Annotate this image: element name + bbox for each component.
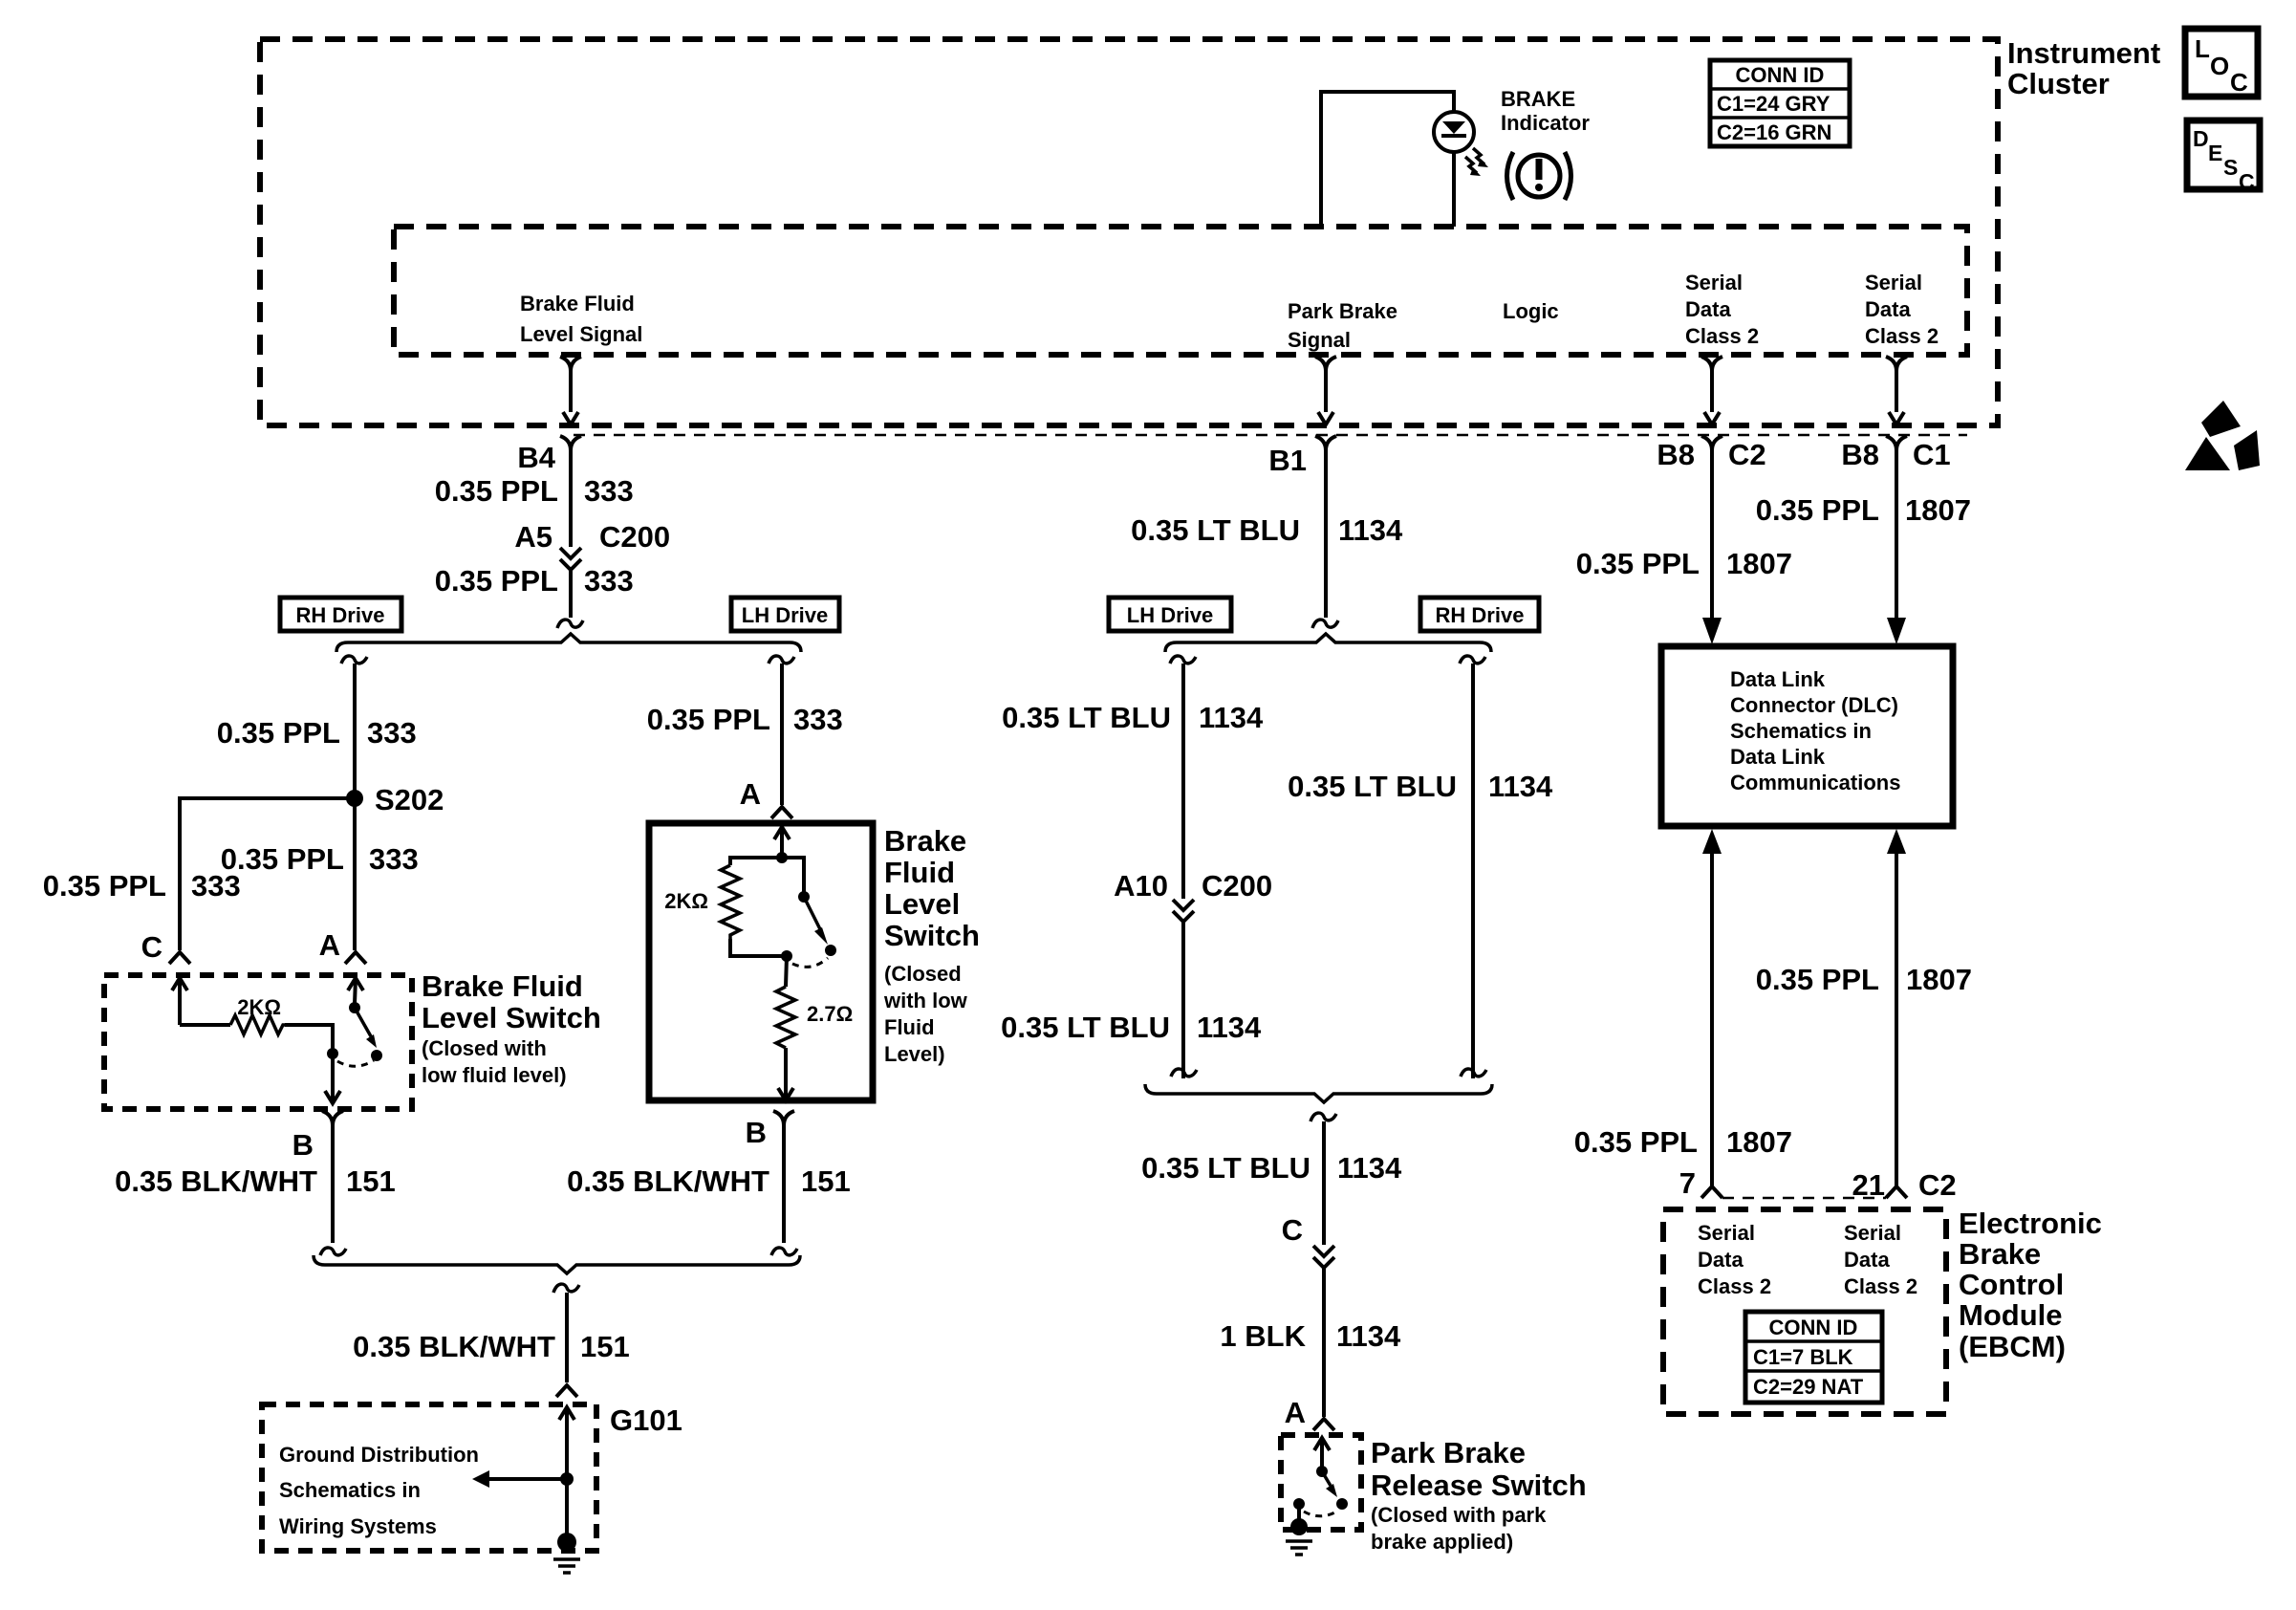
svg-text:0.35 LT BLU: 0.35 LT BLU [1002,701,1171,734]
svg-text:C2: C2 [1728,438,1766,471]
svg-text:Fluid: Fluid [884,856,955,889]
svg-text:Schematics in: Schematics in [279,1478,421,1502]
svg-text:1134: 1134 [1337,1151,1402,1185]
svg-text:BRAKE: BRAKE [1501,87,1575,111]
svg-text:1807: 1807 [1905,493,1971,527]
wire RH branch down [1471,664,1475,1078]
thin dashed connector line (EBCM) [1722,1197,1886,1200]
connector C200 pin A10 chevrons [1173,900,1194,910]
wire strain squiggle above left brace [557,620,583,628]
svg-text:Serial: Serial [1698,1221,1755,1245]
svg-text:C: C [141,930,162,964]
park brake release switch dashed box [1281,1435,1361,1530]
svg-text:Module: Module [1959,1298,2063,1332]
svg-text:333: 333 [584,474,634,508]
svg-text:Control: Control [1959,1268,2064,1301]
wire lower contact down with exit arrow [331,1054,335,1101]
svg-text:C: C [2230,68,2248,97]
wire B1 park brake signal down to splice brace [1324,450,1328,618]
svg-text:Brake Fluid: Brake Fluid [520,292,635,315]
merge brace joining park brake branches [1145,1084,1492,1102]
svg-text:2KΩ: 2KΩ [664,889,708,913]
wire LH branch below C200 [1181,922,1185,1078]
svg-text:C2=16 GRN: C2=16 GRN [1717,120,1831,144]
svg-text:A: A [740,777,761,811]
svg-text:0.35 PPL: 0.35 PPL [221,842,344,876]
svg-text:L: L [2195,34,2210,63]
svg-text:0.35 BLK/WHT: 0.35 BLK/WHT [115,1164,317,1198]
wire B4 to C200 [569,450,573,547]
svg-text:Data Link: Data Link [1730,745,1826,769]
RH Drive version box (middle column) [1420,598,1539,631]
wire B down to merge brace [331,1125,335,1243]
wire LH drive branch down to switch [780,664,784,805]
wire lower contact to 2.7 ohm resistor [786,956,787,987]
splice S202 [346,790,363,807]
svg-text:B8: B8 [1657,438,1695,471]
svg-text:1807: 1807 [1726,1125,1792,1159]
instrument cluster inner logic dashed box [394,227,1967,355]
svg-text:1134: 1134 [1199,701,1264,734]
svg-text:1134: 1134 [1336,1319,1401,1353]
wire serial data C1 down to DLC [1895,450,1898,620]
svg-text:S: S [2223,155,2238,180]
svg-text:0.35 PPL: 0.35 PPL [1756,493,1879,527]
svg-text:A: A [1285,1396,1306,1429]
svg-text:1134: 1134 [1338,513,1403,547]
svg-text:C: C [1282,1213,1303,1247]
CONN ID table (EBCM) [1745,1312,1882,1403]
svg-text:1 BLK: 1 BLK [1220,1319,1306,1353]
terminal chevron A (right switch) [771,807,792,818]
merge brace joining RH/LH drive grounds [314,1255,800,1273]
svg-text:Class 2: Class 2 [1685,324,1759,348]
wire RH drive branch down to S202 [353,664,357,950]
svg-text:A5: A5 [514,520,552,554]
electronic brake control module EBCM dashed box [1663,1209,1946,1414]
svg-text:0.35 PPL: 0.35 PPL [1576,547,1700,580]
svg-text:C1: C1 [1913,438,1951,471]
arrow into switch from A [774,827,790,839]
svg-text:C200: C200 [1202,869,1272,903]
arrow into A terminal (left switch) [348,978,363,990]
terminal chevron at G101 [556,1385,577,1397]
RH Drive version box (left) [280,598,401,631]
svg-text:C1=24 GRY: C1=24 GRY [1717,92,1830,116]
wire ground contact down [1297,1504,1301,1524]
switch upper contact [349,1002,360,1013]
svg-text:0.35 LT BLU: 0.35 LT BLU [1131,513,1300,547]
svg-text:Serial: Serial [1844,1221,1901,1245]
wire hook top of RH drive branch [341,656,367,664]
wire merged park brake signal down [1322,1121,1326,1245]
wire to 2K resistor (vertical) [730,858,782,865]
svg-text:2.7Ω: 2.7Ω [807,1002,853,1026]
svg-text:0.35 PPL: 0.35 PPL [435,564,558,598]
junction dot [776,852,788,863]
svg-text:1134: 1134 [1488,770,1553,803]
svg-text:Data: Data [1865,297,1911,321]
terminal chevron C [169,952,190,964]
svg-text:Brake: Brake [884,824,966,858]
svg-text:S202: S202 [375,783,444,816]
svg-text:Connector (DLC): Connector (DLC) [1730,693,1898,717]
svg-text:CONN ID: CONN ID [1769,1316,1858,1339]
svg-text:B: B [746,1116,767,1149]
svg-text:C200: C200 [599,520,670,554]
svg-text:CONN ID: CONN ID [1736,63,1825,87]
svg-text:B4: B4 [517,441,555,474]
wire hook top of LH park brake branch [1170,656,1196,664]
arrow into C terminal [172,978,187,990]
connector C200 pin A5 chevrons [560,548,581,558]
svg-text:(Closed with park: (Closed with park [1371,1503,1547,1527]
wire resistor to lower contact [285,1025,333,1050]
svg-text:Park Brake: Park Brake [1288,299,1397,323]
wire down to park brake release switch [1322,1268,1326,1417]
wire C200 to splice brace [569,570,573,618]
LH Drive version box (left column) [731,598,839,631]
svg-text:Data Link: Data Link [1730,667,1826,691]
svg-text:0.35 PPL: 0.35 PPL [1756,963,1879,996]
svg-text:Serial: Serial [1685,271,1743,294]
svg-text:low fluid level): low fluid level) [422,1063,567,1087]
svg-text:0.35 LT BLU: 0.35 LT BLU [1141,1151,1310,1185]
svg-text:C: C [2239,169,2255,194]
svg-text:LH Drive: LH Drive [742,603,828,627]
svg-text:C2=29 NAT: C2=29 NAT [1753,1375,1864,1399]
switch arm with arrowhead [804,897,820,929]
svg-text:0.35 PPL: 0.35 PPL [647,703,770,736]
svg-text:Electronic: Electronic [1959,1207,2102,1240]
DESC reference box [2187,120,2260,189]
inline connector chevrons (C) [1313,1246,1334,1256]
svg-text:7: 7 [1679,1166,1696,1200]
svg-text:B1: B1 [1268,444,1307,477]
switch arm with arrowhead [1322,1471,1331,1486]
junction dot in G101 [560,1472,574,1486]
resistor 2K ohm (vertical) [721,865,740,939]
LED light emission arrows [1473,148,1484,164]
switch arm with arrowhead [355,1008,371,1036]
svg-text:2KΩ: 2KΩ [237,995,281,1019]
ground symbol (park brake switch) [1290,1518,1308,1535]
svg-text:Cluster: Cluster [2007,67,2110,100]
svg-text:Instrument: Instrument [2007,36,2160,70]
svg-text:Switch: Switch [884,919,980,952]
wire: serial data class 2 output arrow (C1) [1886,357,1896,371]
ground G101 dashed box [262,1404,596,1551]
svg-text:B8: B8 [1841,438,1879,471]
wire strain squiggle above middle brace [1312,620,1338,628]
svg-text:Release Switch: Release Switch [1371,1469,1587,1502]
svg-text:151: 151 [801,1164,851,1198]
svg-text:E: E [2208,141,2222,165]
svg-text:brake applied): brake applied) [1371,1530,1513,1554]
arrow into G101 [559,1407,574,1420]
svg-text:0.35 LT BLU: 0.35 LT BLU [1288,770,1457,803]
wire hook bottom of RH branch [1461,1069,1486,1077]
svg-text:Level Signal: Level Signal [520,322,642,346]
wire to switch upper contact [782,858,804,893]
wire hook bottom of LH branch [771,1248,797,1255]
svg-text:Class 2: Class 2 [1844,1274,1917,1298]
svg-text:1807: 1807 [1726,547,1792,580]
svg-text:Communications: Communications [1730,771,1900,794]
svg-text:151: 151 [580,1330,630,1363]
wire merged ground down to G101 [565,1293,569,1382]
svg-text:G101: G101 [610,1403,682,1437]
svg-text:0.35 PPL: 0.35 PPL [1574,1125,1698,1159]
connector fork below left switch (terminal B) [322,1111,333,1125]
svg-text:1134: 1134 [1197,1011,1262,1044]
wire: serial data class 2 output arrow (C2) [1701,357,1712,371]
arrow into park brake switch [1314,1438,1330,1450]
svg-text:Indicator: Indicator [1501,111,1590,135]
svg-text:0.35 PPL: 0.35 PPL [217,716,340,750]
svg-text:0.35 BLK/WHT: 0.35 BLK/WHT [353,1330,555,1363]
wire resistor bottom to lower contact [730,939,784,956]
svg-text:Brake: Brake [1959,1237,2041,1271]
reference arrow to ground distribution [472,1470,489,1488]
svg-text:Level Switch: Level Switch [422,1001,601,1034]
svg-text:Serial: Serial [1865,271,1922,294]
svg-text:0.35 BLK/WHT: 0.35 BLK/WHT [567,1164,769,1198]
svg-text:Brake Fluid: Brake Fluid [422,969,583,1003]
ESD susceptibility symbol [2201,401,2241,437]
CONN ID table (instrument cluster) [1710,60,1850,146]
svg-text:C1=7 BLK: C1=7 BLK [1753,1345,1853,1369]
switch upper contact [798,891,810,903]
svg-text:(EBCM): (EBCM) [1959,1330,2066,1363]
svg-text:A: A [319,928,340,962]
svg-text:A10: A10 [1114,869,1168,903]
connector fork pin B8 C1 [1886,436,1896,450]
svg-text:Data: Data [1698,1248,1744,1272]
terminal chevron pin 7 [1701,1186,1722,1198]
svg-text:Data: Data [1844,1248,1890,1272]
wire hook top of LH drive branch [769,656,794,664]
wire: brake indicator lamp loop [1321,92,1454,227]
LED D1 brake indicator lamp [1434,112,1474,152]
svg-text:O: O [2210,52,2229,80]
connector fork pin B1 [1315,436,1326,450]
svg-text:with low: with low [883,989,968,1012]
wire to 2K resistor [180,1023,230,1027]
svg-text:333: 333 [369,842,419,876]
wire strain squiggle below merge brace [553,1284,579,1293]
terminal chevron A (park brake switch) [1313,1419,1334,1430]
wire hook bottom of RH branch [320,1248,346,1255]
svg-text:Class 2: Class 2 [1865,324,1939,348]
connector fork pin B8 C2 [1701,436,1712,450]
svg-text:C2: C2 [1918,1168,1957,1202]
switch lower contact [781,950,792,962]
resistor 2.7 ohm (vertical) [776,987,795,1048]
svg-text:RH Drive: RH Drive [1436,603,1525,627]
connector fork pin B4 [560,436,571,450]
switch upper contact [1316,1466,1328,1477]
svg-text:Signal: Signal [1288,328,1351,352]
svg-text:Wiring Systems: Wiring Systems [279,1514,437,1538]
svg-text:LH Drive: LH Drive [1127,603,1213,627]
LOC reference box [2185,29,2258,97]
svg-text:Level): Level) [884,1042,945,1066]
svg-text:333: 333 [584,564,634,598]
switch travel contact [825,945,836,956]
svg-text:D: D [2193,126,2209,151]
wire EBCM pin 21 up to DLC [1887,829,1906,854]
svg-text:333: 333 [793,703,843,736]
brake warning symbol (!) [1518,155,1560,197]
wire: brake fluid level signal output arrow [560,357,571,371]
svg-text:(Closed: (Closed [884,962,962,986]
data link connector DLC box [1661,646,1953,826]
wire hook bottom of LH branch [1171,1069,1197,1077]
switch ground contact [1293,1498,1305,1510]
svg-text:Data: Data [1685,297,1731,321]
wire S202 loop to C terminal [180,798,355,950]
switch travel dashed arc [792,958,828,967]
ground symbol G101 [557,1533,576,1552]
svg-text:Schematics in: Schematics in [1730,719,1872,743]
wire: LED cathode to logic box [1452,151,1456,227]
resistor 2K ohm (horizontal) [230,1015,285,1034]
svg-text:1807: 1807 [1906,963,1972,996]
thin dashed connector line (instrument cluster connectors) [574,434,1967,437]
wire strain squiggle below middle merge brace [1310,1113,1336,1121]
switch travel contact [371,1050,382,1061]
brake fluid level switch (RH drive) dashed box [104,975,412,1109]
svg-text:(Closed with: (Closed with [422,1036,547,1060]
wire LH branch down to C200 [1181,664,1185,899]
LH Drive version box (middle column) [1109,598,1231,631]
terminal chevron pin 21 [1886,1186,1907,1198]
terminal chevron A (left switch) [345,952,366,964]
splice brace splitting RH/LH drive (left column) [336,634,801,652]
svg-text:151: 151 [346,1164,396,1198]
svg-text:Level: Level [884,887,960,921]
wire hook top of RH park brake branch [1460,656,1485,664]
svg-text:Fluid: Fluid [884,1015,935,1039]
splice brace splitting LH/RH drive (middle column) [1165,634,1491,652]
wire resistor down with exit arrow [784,1048,788,1099]
svg-text:Class 2: Class 2 [1698,1274,1771,1298]
wire: park brake signal output arrow [1315,357,1326,371]
svg-text:B: B [292,1128,314,1162]
switch travel contact [1336,1498,1348,1510]
svg-text:0.35 LT BLU: 0.35 LT BLU [1001,1011,1170,1044]
instrument cluster outer dashed box [260,39,1998,425]
svg-text:Ground Distribution: Ground Distribution [279,1443,479,1467]
switch travel dashed arc [337,1060,374,1066]
switch lower contact [327,1048,338,1059]
svg-text:Park Brake: Park Brake [1371,1436,1526,1469]
switch travel dashed arc [1304,1511,1338,1516]
svg-text:RH Drive: RH Drive [296,603,385,627]
connector fork below right switch (terminal B) [773,1111,784,1125]
svg-text:0.35 PPL: 0.35 PPL [435,474,558,508]
brake fluid level switch (LH drive) solid box [649,823,873,1100]
svg-text:21: 21 [1852,1168,1885,1202]
wire B down to merge brace [782,1125,786,1243]
svg-text:333: 333 [367,716,417,750]
svg-text:0.35 PPL: 0.35 PPL [43,869,166,903]
wire EBCM pin 7 up to DLC [1702,829,1722,854]
svg-text:Logic: Logic [1503,299,1559,323]
wire serial data C2 down to DLC [1710,450,1714,620]
